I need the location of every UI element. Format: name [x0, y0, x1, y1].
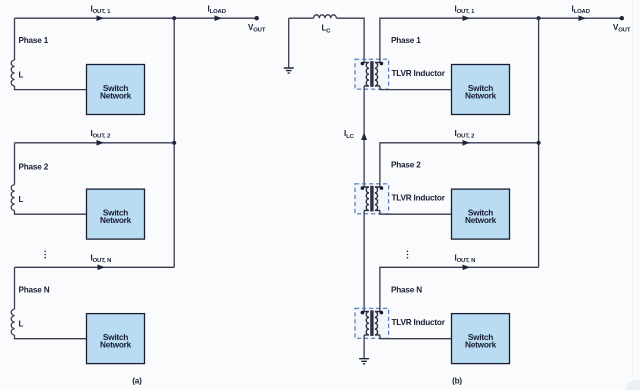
- svg-text:VOUT: VOUT: [248, 23, 266, 34]
- svg-text:Network: Network: [465, 340, 497, 350]
- wire: (a) phase2 left vertical: [14, 143, 16, 185]
- wire: (b) common rail vertical: [538, 18, 540, 267]
- node V_OUT (b) terminal dot: [620, 16, 624, 20]
- node junction dot (a) row2: [172, 141, 176, 145]
- wire: (b) top rail left segment: [289, 17, 314, 19]
- svg-text:IOUT, N: IOUT, N: [455, 253, 476, 264]
- wire: (a) phase2 output: [15, 142, 175, 144]
- inductor L_C (b): [314, 15, 337, 18]
- arrow I_LOAD (b): [579, 15, 587, 21]
- wire: (b) L_C loop T3 bottom to ground: [363, 335, 365, 358]
- arrow I_LOAD (a): [215, 15, 223, 21]
- svg-text:Network: Network: [100, 215, 132, 225]
- wire: (a) phaseN output: [15, 266, 175, 268]
- svg-text:ILOAD: ILOAD: [572, 4, 590, 15]
- wire: (b) L_C to transformer T1 primary-side top: [336, 18, 364, 62]
- switch network box SN3 (a): [87, 314, 145, 364]
- wire: (a) phase1 to switch network: [15, 86, 87, 90]
- wire: (b) I_LOAD rail to V_OUT: [539, 17, 622, 19]
- svg-text:Phase N: Phase N: [391, 286, 422, 295]
- arrow I_OUT,2 (a): [97, 140, 105, 146]
- node junction dot (a) row1: [172, 16, 176, 20]
- arrow I_OUT,N (b): [463, 265, 471, 271]
- svg-text:Phase 2: Phase 2: [391, 161, 421, 170]
- transformer T2 (TLVR inductor, phase 2): [355, 184, 389, 214]
- node junction dot (b) row1: [537, 16, 541, 20]
- arrow I_LC up: [361, 133, 367, 141]
- ground G1 (b) top-left: [288, 18, 290, 67]
- svg-text:Network: Network: [465, 90, 497, 100]
- wire: (b) L_C loop T2 bottom to T3 top: [363, 211, 365, 312]
- switch network box SN4 (b): [452, 65, 510, 115]
- transformer T3 (TLVR inductor, phase N): [355, 308, 389, 338]
- svg-text:ILOAD: ILOAD: [208, 4, 226, 15]
- svg-text:Phase 1: Phase 1: [391, 36, 421, 45]
- svg-text:LC: LC: [322, 24, 332, 35]
- svg-text:IOUT, 1: IOUT, 1: [455, 4, 476, 15]
- svg-text:Network: Network: [100, 340, 132, 350]
- arrow I_OUT,1 (b): [463, 15, 471, 21]
- svg-text:ILC: ILC: [344, 129, 355, 140]
- switch network box SN5 (b): [452, 189, 510, 239]
- wire: (b) L_C loop T1 bottom to T2 top: [363, 86, 365, 187]
- wire: (a) top output rail: [15, 17, 257, 19]
- svg-text:L: L: [19, 195, 24, 204]
- svg-text:TLVR Inductor: TLVR Inductor: [392, 318, 446, 327]
- wire: (a) phaseN to switch network: [15, 335, 87, 339]
- wire: (a) phase1 left vertical: [14, 18, 16, 60]
- switch network box SN1 (a): [87, 65, 145, 115]
- inductor L phase1 (a): [11, 60, 14, 86]
- svg-text:TLVR Inductor: TLVR Inductor: [392, 194, 446, 203]
- node V_OUT (a) terminal dot: [255, 16, 259, 20]
- wire: (b) T1 secondary to switch network SN4: [380, 86, 452, 90]
- wire: (b) T2 secondary to switch network SN5: [380, 211, 452, 215]
- svg-text:IOUT, 2: IOUT, 2: [91, 129, 112, 140]
- wire: (b) T3 secondary to switch network SN6: [380, 335, 452, 339]
- svg-text:Phase N: Phase N: [19, 286, 50, 295]
- svg-text:L: L: [19, 320, 24, 329]
- svg-text:Network: Network: [465, 215, 497, 225]
- wire: (b) phaseN output from T3: [380, 267, 539, 311]
- ellipsis dots (b): [407, 251, 409, 253]
- svg-text:Phase 2: Phase 2: [19, 163, 49, 172]
- node junction dot (b) row2: [537, 141, 541, 145]
- svg-text:(b): (b): [452, 377, 462, 386]
- arrow I_OUT,1 (a): [97, 15, 105, 21]
- svg-text:IOUT, N: IOUT, N: [91, 253, 112, 264]
- svg-text:VOUT: VOUT: [613, 23, 631, 34]
- wire: (a) common rail vertical: [173, 18, 175, 267]
- arrow I_OUT,N (a): [98, 265, 106, 271]
- ellipsis dots (a): [44, 251, 46, 253]
- switch network box SN6 (b): [452, 314, 510, 364]
- svg-text:IOUT, 1: IOUT, 1: [91, 4, 112, 15]
- switch network box SN2 (a): [87, 189, 145, 239]
- wire: (a) phase2 to switch network: [15, 211, 87, 215]
- wire: (a) phaseN left vertical: [14, 267, 16, 309]
- svg-text:(a): (a): [132, 377, 142, 386]
- inductor L phase2 (a): [11, 185, 14, 211]
- ground G2 (b) bottom: [359, 359, 369, 364]
- arrow I_OUT,2 (b): [463, 140, 471, 146]
- inductor L phaseN (a): [11, 309, 14, 335]
- svg-text:IOUT, 2: IOUT, 2: [455, 129, 476, 140]
- transformer T1 (TLVR inductor, phase 1): [355, 59, 389, 89]
- wire: (b) phase1 output from T1: [380, 18, 539, 62]
- svg-text:Phase 1: Phase 1: [19, 36, 49, 45]
- svg-text:Network: Network: [100, 90, 132, 100]
- svg-text:L: L: [19, 71, 24, 80]
- wire: (b) phase2 output from T2: [380, 143, 539, 187]
- svg-text:TLVR Inductor: TLVR Inductor: [392, 69, 446, 78]
